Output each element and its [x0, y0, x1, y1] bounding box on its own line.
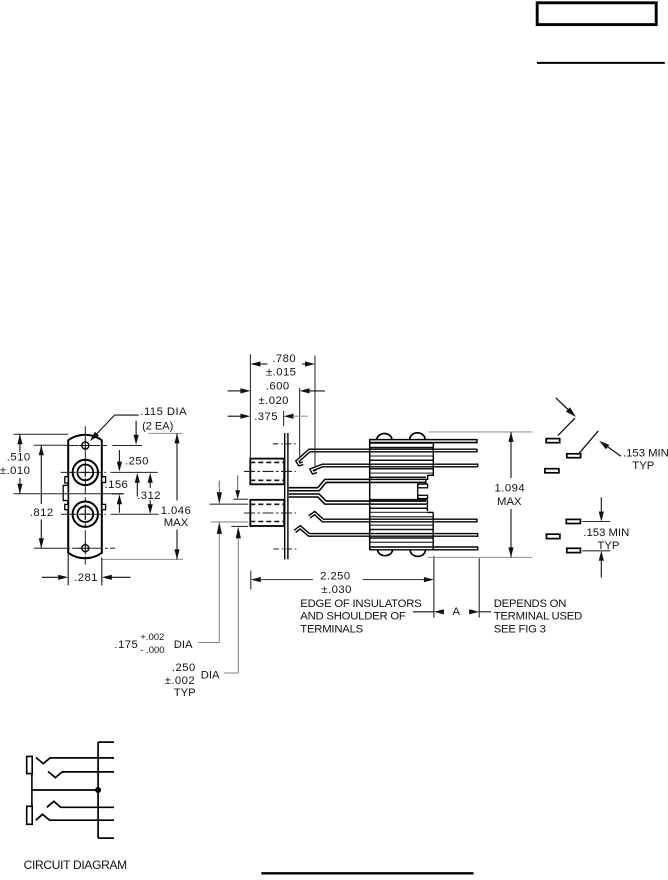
insulator bottom bumps — [378, 550, 426, 556]
bottom mounting hole — [82, 545, 89, 552]
svg-text:MAX: MAX — [497, 496, 522, 508]
horizontal centerline bottom hole — [34, 547, 70, 549]
insulator stack lines lower — [370, 499, 428, 501]
header rule line — [537, 62, 665, 64]
bottom center rule — [261, 872, 473, 874]
circuit: jack sleeve bar top — [27, 756, 33, 773]
upper bushing centerline — [244, 470, 296, 472]
svg-text:TERMINALS: TERMINALS — [300, 623, 363, 635]
circuit: contact line 2 — [48, 772, 114, 778]
svg-text:AND SHOULDER OF: AND SHOULDER OF — [300, 611, 406, 623]
svg-text:(2 EA): (2 EA) — [142, 420, 173, 432]
leader .115 DIA (2 EA) — [115, 414, 139, 416]
horizontal centerline top hole — [66, 445, 108, 447]
dimension .312 — [135, 473, 140, 483]
svg-text:.115 DIA: .115 DIA — [140, 406, 187, 418]
terminal T3 — [545, 469, 559, 473]
svg-text:±.030: ±.030 — [321, 584, 351, 596]
top extension line — [14, 433, 69, 435]
terminal T2 — [567, 454, 581, 458]
upper jack bushing circles — [73, 460, 98, 485]
1.094 extension lines — [428, 431, 532, 433]
upper spring contact 1 (tip spring) — [297, 451, 477, 465]
side view: mounting plate bar — [284, 433, 289, 559]
svg-text:MAX: MAX — [164, 517, 189, 529]
dimension .780 — [250, 361, 260, 366]
circuit: middle line — [32, 789, 98, 791]
svg-text:CIRCUIT DIAGRAM: CIRCUIT DIAGRAM — [24, 858, 128, 872]
horizontal centerline upper jack — [61, 471, 106, 473]
svg-text:TERMINAL USED: TERMINAL USED — [494, 611, 582, 623]
svg-text:.250: .250 — [125, 455, 149, 467]
dia extension lines — [233, 498, 248, 500]
dimension .281 — [67, 554, 69, 586]
svg-text:.153 MIN: .153 MIN — [623, 448, 668, 460]
upper bushing (threaded) — [250, 459, 284, 485]
svg-text:±.020: ±.020 — [258, 395, 288, 407]
A dimension — [413, 611, 434, 613]
svg-text:.780: .780 — [272, 353, 296, 365]
lower .153 dimension — [582, 521, 610, 523]
circuit: bus line — [97, 742, 99, 838]
svg-text:.175: .175 — [114, 639, 138, 651]
extension line .780 right — [314, 355, 316, 466]
diagonal line from T2 — [579, 431, 598, 453]
lower jack bushing circles — [73, 502, 98, 527]
plate side tabs right — [102, 477, 106, 483]
top frame contact blade 1 — [370, 439, 477, 444]
big diagonal arrow top right — [556, 398, 570, 412]
plate centerline tick bottom — [273, 548, 296, 550]
circuit: jack sleeve bar bottom — [27, 806, 33, 824]
upper spring contact 2 — [312, 466, 478, 473]
terminal T1 — [546, 439, 560, 443]
svg-text:A: A — [453, 606, 461, 618]
svg-text:.153 MIN: .153 MIN — [583, 527, 629, 539]
2.250 dimension line — [251, 577, 261, 582]
svg-text:SEE FIG 3: SEE FIG 3 — [494, 623, 546, 635]
svg-text:±.002: ±.002 — [165, 675, 195, 687]
center shield contact lower branch — [289, 496, 426, 503]
svg-text:EDGE OF INSULATORS: EDGE OF INSULATORS — [300, 598, 422, 610]
insulator block right edge staircase lower — [427, 500, 433, 551]
svg-text:.312: .312 — [137, 490, 161, 502]
bottom frame contact blade 6 — [370, 546, 478, 550]
svg-text:TYP: TYP — [632, 460, 654, 472]
terminal T4 — [566, 519, 580, 523]
lower spring contact 3 — [309, 513, 477, 520]
horizontal centerline lower jack — [61, 513, 106, 515]
dimension .812 — [34, 444, 66, 446]
svg-text:DIA: DIA — [174, 639, 193, 651]
svg-text:DIA: DIA — [201, 669, 220, 681]
svg-text:- .000: - .000 — [140, 645, 164, 656]
svg-text:TYP: TYP — [174, 687, 196, 699]
svg-text:1.094: 1.094 — [495, 483, 526, 495]
.250 DIA arrows/leader — [237, 475, 239, 490]
horizontal mid extension line — [14, 493, 124, 495]
svg-text:DEPENDS ON: DEPENDS ON — [494, 598, 567, 610]
circuit: contact line 4 — [47, 801, 114, 807]
svg-text:.281: .281 — [74, 572, 98, 584]
insulator stack lines upper — [370, 442, 434, 444]
dimension .510 +-.010 — [19, 434, 21, 452]
title box top right — [537, 3, 656, 25]
dimension .375 — [228, 415, 242, 417]
extension line .600 right — [299, 388, 301, 458]
circuit: contact line 5 — [36, 814, 114, 820]
circuit: junction dot — [95, 787, 101, 793]
svg-text:.375: .375 — [254, 411, 278, 423]
svg-text:TYP: TYP — [598, 540, 620, 552]
top mounting hole .115 — [82, 442, 89, 449]
dimension .156 — [112, 493, 124, 495]
insulator block left edge — [369, 439, 371, 550]
insulator block right edge staircase upper — [426, 444, 433, 484]
circuit: top stub — [98, 741, 114, 743]
terminal T5 — [546, 534, 560, 538]
dimension .250 arrows — [135, 421, 137, 435]
svg-text:.250: .250 — [172, 662, 196, 674]
svg-text:.812: .812 — [30, 507, 54, 519]
circuit: contact line 1 — [36, 758, 114, 764]
svg-text:.156: .156 — [105, 479, 129, 491]
lower bushing (threaded) — [250, 500, 284, 526]
extension line left (bushing face) — [249, 354, 251, 458]
terminal T6 — [567, 548, 581, 552]
circuit: sleeve connector — [31, 774, 33, 807]
.175 DIA arrows/leader — [218, 481, 220, 496]
lower bushing centerline — [244, 512, 296, 514]
center shield contact upper branch — [289, 481, 426, 489]
extension lines for A dimension — [433, 556, 435, 618]
bottom extension line (1.046) — [102, 558, 183, 560]
svg-text:2.250: 2.250 — [320, 571, 351, 583]
leader .153 MIN TYP upper — [603, 444, 621, 457]
svg-text:1.046: 1.046 — [161, 505, 192, 517]
plate centerline tick top — [273, 443, 296, 445]
circuit: bottom stub — [98, 837, 114, 839]
front view: jack mounting plate outline — [68, 435, 102, 559]
1.094 dimension line — [510, 432, 512, 478]
center terminal notch blocks — [418, 484, 428, 488]
svg-text:±.015: ±.015 — [266, 366, 296, 378]
dimension .600 — [228, 390, 242, 392]
vertical centerline of plate — [84, 426, 86, 564]
plate side tabs left — [65, 477, 68, 483]
svg-text:±.010: ±.010 — [0, 465, 30, 477]
dimension 1.046 MAX — [176, 433, 178, 500]
insulator top bumps — [377, 433, 425, 439]
2.250 left extension — [250, 571, 252, 590]
lower spring contact 4 — [295, 527, 478, 535]
svg-text:.600: .600 — [266, 380, 290, 392]
extension tick .375 right — [283, 411, 285, 426]
diagonal line from T1 — [558, 418, 575, 436]
svg-text:+.002: +.002 — [140, 632, 164, 643]
svg-text:.510: .510 — [7, 452, 31, 464]
